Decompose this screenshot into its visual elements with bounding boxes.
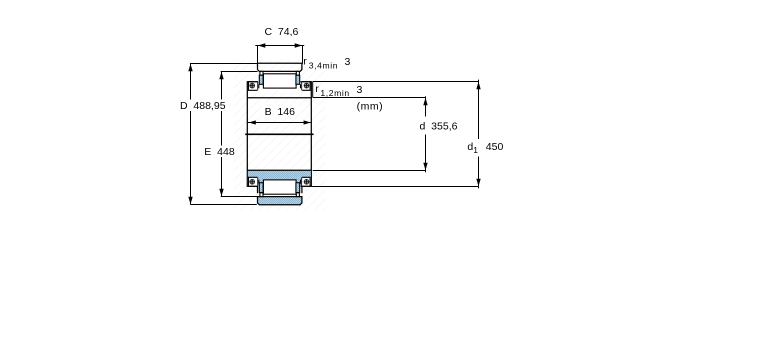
svg-text:C 74,6: C 74,6 xyxy=(265,26,299,38)
svg-text:D 488,95: D 488,95 xyxy=(180,100,226,112)
svg-text:d1 450: d1 450 xyxy=(467,141,503,155)
svg-text:3,4min: 3,4min xyxy=(309,60,338,70)
svg-text:E 448: E 448 xyxy=(204,146,235,158)
svg-text:(mm): (mm) xyxy=(357,101,384,113)
svg-text:r: r xyxy=(303,56,307,68)
svg-text:3: 3 xyxy=(357,84,363,96)
svg-text:3: 3 xyxy=(345,56,351,68)
svg-text:1,2min: 1,2min xyxy=(320,88,349,98)
svg-text:d 355,6: d 355,6 xyxy=(420,121,458,133)
svg-text:r: r xyxy=(315,83,319,95)
svg-text:B 146: B 146 xyxy=(265,106,296,118)
